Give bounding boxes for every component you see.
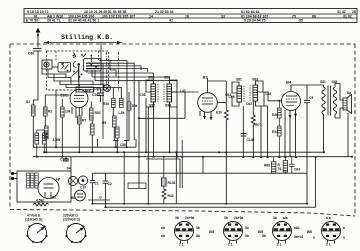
svg-text:ab1: ab1 [294, 226, 300, 230]
svg-text:S4: S4 [67, 167, 71, 171]
svg-text:1 1: 1 1 [228, 243, 233, 247]
svg-text:S-l: S-l [26, 100, 30, 104]
svg-text:ab: ab [161, 234, 165, 238]
svg-text:4,5W: 4,5W [53, 138, 62, 142]
svg-text:5a+b1: 5a+b1 [294, 235, 304, 239]
svg-text:1 1: 1 1 [179, 243, 184, 247]
svg-text:R88: R88 [264, 164, 270, 168]
svg-text:a: a [343, 236, 345, 240]
svg-text:101 102 103 105 107: 101 102 103 105 107 [102, 14, 135, 18]
svg-text:C48: C48 [94, 87, 100, 91]
svg-text:33: 33 [221, 14, 225, 18]
svg-text:R101: R101 [45, 130, 49, 138]
svg-text:B1: B1 [52, 196, 56, 200]
svg-text:R52: R52 [95, 111, 101, 115]
svg-text:Stilling K.B.: Stilling K.B. [61, 34, 113, 42]
svg-text:78: 78 [278, 167, 282, 171]
svg-text:8b: 8b [196, 234, 200, 238]
svg-text:(110/145 Ω): (110/145 Ω) [25, 218, 42, 222]
svg-text:R2: R2 [48, 110, 52, 114]
svg-text:42: 42 [169, 19, 173, 23]
svg-text:5b: 5b [245, 234, 249, 238]
svg-text:2a+5a: 2a+5a [234, 216, 243, 220]
svg-text:16: 16 [185, 14, 189, 18]
svg-text:Bb: Bb [71, 196, 75, 200]
svg-text:R42: R42 [168, 194, 174, 198]
svg-text:E30: E30 [216, 111, 222, 115]
svg-text:14: 14 [149, 14, 153, 18]
svg-text:S63: S63 [252, 78, 258, 82]
svg-text:S82: S82 [332, 80, 338, 84]
svg-text:(220Volt Ω): (220Volt Ω) [63, 218, 80, 222]
svg-text:S81: S81 [320, 80, 326, 84]
svg-text:a: a [313, 236, 315, 240]
svg-text:R9: R9 [102, 121, 106, 125]
svg-text:C60: C60 [28, 52, 34, 56]
svg-text:5b: 5b [262, 234, 266, 238]
svg-text:R7: R7 [82, 119, 86, 123]
svg-text:ala: ala [283, 216, 288, 220]
svg-text:1,5k: 1,5k [118, 111, 125, 115]
svg-text:E 70 50: E 70 50 [26, 19, 38, 23]
svg-text:S54: S54 [165, 104, 171, 108]
svg-text:C50: C50 [120, 143, 126, 147]
svg-text:3b: 3b [175, 216, 179, 220]
svg-text:3b: 3b [273, 216, 277, 220]
svg-text:31 92: 31 92 [343, 14, 352, 18]
svg-text:5b: 5b [196, 226, 200, 230]
svg-text:R104: R104 [168, 181, 176, 185]
svg-text:1 1: 1 1 [277, 243, 282, 247]
svg-text:C9: C9 [309, 96, 313, 100]
svg-text:C63: C63 [294, 168, 300, 172]
svg-text:5 18 18 15 71: 5 18 18 15 71 [27, 10, 48, 14]
svg-text:R71: R71 [256, 123, 262, 127]
svg-text:B6: B6 [307, 229, 313, 234]
svg-text:C2: C2 [108, 182, 112, 186]
svg-text:S51: S51 [148, 76, 154, 80]
svg-text:C102: C102 [92, 93, 100, 97]
svg-text:S52: S52 [149, 104, 155, 108]
svg-text:4,5W: 4,5W [36, 199, 45, 203]
svg-text:R16: R16 [103, 102, 109, 106]
svg-text:a a: a a [326, 216, 331, 220]
svg-text:5 28 34 64 75: 5 28 34 64 75 [244, 19, 265, 23]
svg-text:B2: B2 [85, 89, 91, 94]
svg-text:E34: E34 [272, 130, 278, 134]
svg-text:S61: S61 [236, 78, 242, 82]
svg-text:5a: 5a [245, 226, 249, 230]
svg-text:E36: E36 [272, 113, 278, 117]
svg-text:C61: C61 [225, 93, 231, 97]
svg-text:26: 26 [352, 10, 356, 14]
svg-text:C148: C148 [247, 138, 255, 142]
svg-text:S53: S53 [164, 76, 170, 80]
svg-text:21 32 33 44: 21 32 33 44 [155, 10, 174, 14]
svg-text:C1: C1 [95, 182, 99, 186]
svg-text:86: 86 [312, 14, 316, 18]
svg-text:Sp: Sp [347, 91, 351, 95]
svg-text:ab: ab [161, 226, 165, 230]
svg-text:75: 75 [292, 14, 296, 18]
svg-text:2a+5a: 2a+5a [185, 216, 194, 220]
svg-text:C101: C101 [60, 94, 68, 98]
svg-text:31 34 40 41 41 50 1: 31 34 40 41 41 50 1 [68, 19, 99, 23]
svg-text:C62: C62 [246, 102, 252, 106]
svg-text:35: 35 [299, 19, 303, 23]
svg-text:Lp: Lp [56, 177, 60, 181]
svg-text:B4: B4 [286, 80, 292, 85]
svg-text:B5: B5 [209, 229, 215, 234]
svg-text:a: a [343, 226, 345, 230]
svg-text:28 41 TL: 28 41 TL [47, 19, 62, 23]
svg-text:C10: C10 [80, 186, 86, 190]
svg-text:10k: 10k [65, 110, 71, 114]
svg-text:3b: 3b [224, 216, 228, 220]
svg-text:C58: C58 [140, 93, 146, 97]
svg-text:B3: B3 [203, 75, 209, 80]
svg-text:1 1: 1 1 [326, 243, 331, 247]
svg-text:50k: 50k [132, 104, 138, 108]
